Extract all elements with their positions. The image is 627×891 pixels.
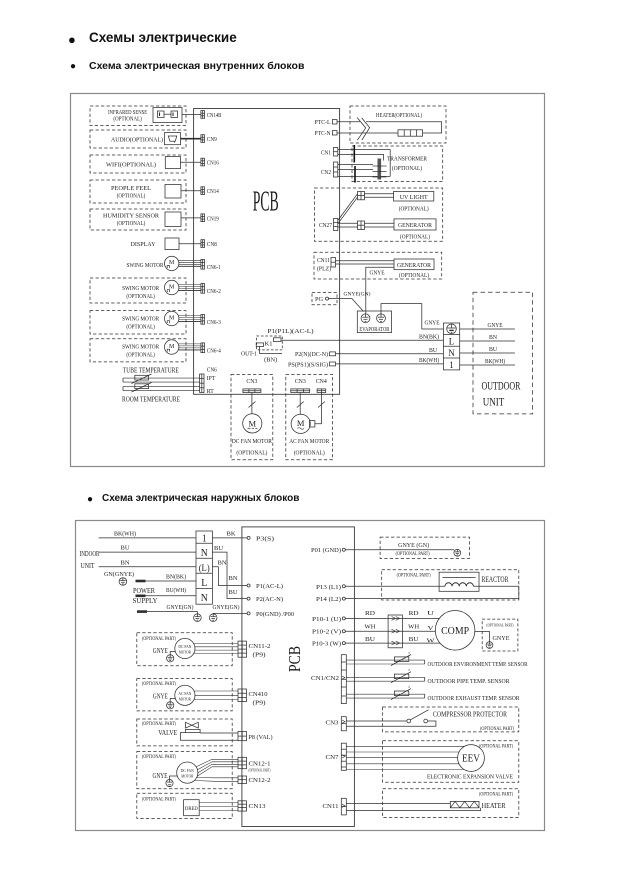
svg-text:ELECTRONIC EXPANSION VALVE: ELECTRONIC EXPANSION VALVE bbox=[427, 773, 513, 780]
capacitor C1 (AC fan) bbox=[310, 421, 315, 427]
svg-text:AC FAN: AC FAN bbox=[178, 691, 192, 696]
svg-text:BU: BU bbox=[229, 589, 238, 596]
pad PTC-N bbox=[332, 131, 337, 135]
svg-text:ROOM TEMPERATURE: ROOM TEMPERATURE bbox=[122, 397, 180, 404]
svg-text:(PLZ): (PLZ) bbox=[317, 266, 331, 273]
header title 2 bbox=[89, 60, 304, 72]
svg-text:P8 (VAL): P8 (VAL) bbox=[249, 734, 273, 741]
earth symbol evaporator 2 bbox=[377, 314, 386, 323]
heater group box (optional) bbox=[350, 106, 446, 143]
svg-text:1: 1 bbox=[449, 361, 454, 371]
connector CN8 bbox=[201, 240, 205, 248]
svg-text:CN8: CN8 bbox=[207, 242, 217, 248]
pin P10-2(V) bbox=[342, 630, 345, 633]
earth symbol power right bbox=[209, 614, 217, 622]
plasma generator group box (optional) bbox=[314, 252, 442, 279]
header title 1 bbox=[89, 30, 237, 45]
svg-text:SUPPLY: SUPPLY bbox=[133, 597, 158, 605]
wires CN27 to UV connector (diagonal pair) bbox=[338, 194, 358, 221]
svg-text:AUDIO(OPTIONAL): AUDIO(OPTIONAL) bbox=[111, 136, 163, 143]
connector CN12-2b bbox=[238, 776, 247, 784]
svg-text:(OPTIONAL PART): (OPTIONAL PART) bbox=[480, 727, 514, 732]
thermistor RT1 wires bbox=[346, 659, 424, 661]
connector CN14 bbox=[201, 187, 205, 195]
svg-text:BU: BU bbox=[409, 636, 419, 643]
wire BK terminal to P3(S) bbox=[212, 537, 247, 539]
AC fan motor box (optional) bbox=[286, 374, 333, 459]
svg-text:BU: BU bbox=[429, 348, 438, 354]
swing motor SM4 bbox=[165, 340, 179, 354]
thermistor IPT (tube temp) bbox=[123, 377, 200, 379]
AC fan motor B bbox=[175, 685, 195, 705]
svg-text:CN27: CN27 bbox=[319, 223, 332, 229]
svg-text:SWING MOTOR: SWING MOTOR bbox=[127, 262, 165, 269]
connector CN3 (AC fan) bbox=[291, 389, 310, 393]
connector CN13 bbox=[238, 801, 247, 811]
svg-text:OUTDOOR: OUTDOOR bbox=[482, 381, 521, 393]
connector CN12-1 bbox=[238, 757, 247, 768]
pin P10-1(U) bbox=[342, 617, 345, 620]
wires terminal to outdoor unit bbox=[460, 328, 515, 330]
svg-text:(OPTIONAL PART): (OPTIONAL PART) bbox=[487, 623, 514, 628]
svg-text:HEATER: HEATER bbox=[482, 801, 506, 810]
wire P13 to reactor bbox=[345, 585, 445, 587]
svg-text:CN11: CN11 bbox=[317, 258, 330, 264]
svg-text:(OPTIONAL): (OPTIONAL) bbox=[126, 351, 155, 358]
wire heater loop bbox=[366, 122, 442, 133]
wire BK(WH) indoor to terminal 1 bbox=[99, 537, 196, 539]
pin P13(L1) bbox=[342, 585, 345, 588]
connector CN6 (temperature) bbox=[200, 374, 204, 393]
pin P0(GND)/P00 bbox=[247, 612, 250, 615]
wires CN11 to heater bbox=[346, 803, 450, 805]
svg-text:L: L bbox=[201, 577, 207, 589]
thermistor RT3 (outdoor exhaust) bbox=[394, 691, 408, 696]
svg-text:CN14B: CN14B bbox=[207, 113, 222, 119]
connector comp plug bbox=[388, 615, 402, 648]
svg-text:(OPTIONAL): (OPTIONAL) bbox=[400, 234, 430, 241]
svg-text:MOTOR: MOTOR bbox=[179, 650, 192, 655]
transformer T1 bbox=[389, 150, 391, 177]
wires CN1 to transformer T1 bbox=[338, 149, 390, 151]
thermistor RT1 (outdoor environment) bbox=[394, 657, 408, 662]
svg-text:HUMIDITY SENSOR: HUMIDITY SENSOR bbox=[103, 213, 160, 220]
svg-text:(OPTIONAL): (OPTIONAL) bbox=[126, 293, 155, 300]
svg-text:GN(GNYE): GN(GNYE) bbox=[104, 571, 134, 578]
svg-text:GNYE(GN): GNYE(GN) bbox=[213, 604, 240, 611]
wire motor C earth bbox=[170, 776, 178, 780]
svg-text:POWER: POWER bbox=[133, 587, 155, 595]
svg-text:RT: RT bbox=[207, 389, 214, 395]
header bullet 1 bbox=[68, 32, 76, 47]
svg-text:(OPTIONAL): (OPTIONAL) bbox=[236, 449, 267, 456]
svg-text:UNIT: UNIT bbox=[483, 397, 505, 409]
svg-text:P1(AC-L): P1(AC-L) bbox=[256, 583, 283, 590]
wires UV mini to UV lamp bbox=[365, 193, 394, 195]
connector CN19 bbox=[201, 214, 205, 222]
svg-text:CN2: CN2 bbox=[321, 170, 331, 176]
svg-text:CN11: CN11 bbox=[323, 803, 339, 810]
connector CN6-2 bbox=[201, 284, 205, 294]
svg-text:BU: BU bbox=[489, 347, 498, 353]
wires CN2 to transformer T1 bbox=[338, 164, 373, 166]
earth symbol motor B bbox=[167, 702, 174, 709]
svg-text:GNYE(GN): GNYE(GN) bbox=[344, 291, 371, 298]
wires motor A to CN11-2 bbox=[194, 643, 238, 645]
display module icon bbox=[165, 238, 179, 250]
header title 3 bbox=[102, 493, 299, 504]
wire V phase bbox=[345, 630, 435, 632]
terminal block XT1 bbox=[443, 323, 459, 370]
svg-text:GENERATOR: GENERATOR bbox=[397, 262, 432, 269]
transformer group box (optional) bbox=[352, 146, 443, 182]
svg-text:MOTOR: MOTOR bbox=[179, 696, 192, 701]
connector CN4 (AC fan cap) bbox=[317, 389, 326, 393]
DRED module bbox=[184, 800, 200, 816]
wire element to PTC-N bbox=[337, 132, 398, 134]
wire PG to evaporator earth bbox=[329, 299, 364, 312]
UV light group box (optional) bbox=[314, 188, 442, 241]
reactor L1 body bbox=[439, 572, 479, 591]
svg-text:P1(P1L)(AC-L): P1(P1L)(AC-L) bbox=[268, 328, 314, 335]
wire bundle SM2 to CN6-2 bbox=[179, 283, 201, 285]
connector generator mini bbox=[358, 221, 365, 230]
connector CN3 (DC fan) bbox=[243, 389, 261, 393]
svg-text:EEV: EEV bbox=[462, 753, 480, 765]
earth symbol comp bbox=[486, 642, 493, 649]
svg-text:(OPTIONAL): (OPTIONAL) bbox=[117, 220, 146, 227]
svg-text:(OPTIONAL PART): (OPTIONAL PART) bbox=[397, 573, 431, 578]
connector CN1 bbox=[334, 148, 338, 157]
svg-text:P0(GND) /P00: P0(GND) /P00 bbox=[256, 611, 294, 618]
svg-text:P10-1 (U): P10-1 (U) bbox=[312, 616, 341, 623]
wire PTC-L to heater element bbox=[337, 121, 360, 123]
svg-text:K1: K1 bbox=[265, 341, 273, 347]
wire CN4 to capacitor bbox=[315, 393, 322, 424]
wire P01 to earth bbox=[345, 549, 454, 551]
svg-text:(OPTIONAL PART): (OPTIONAL PART) bbox=[142, 797, 176, 802]
svg-text:GNYE: GNYE bbox=[370, 271, 385, 277]
wires CN11 to generator G2 bbox=[336, 260, 395, 262]
humidity sensor module icon bbox=[165, 212, 181, 227]
reactor L1 winding bbox=[445, 583, 473, 587]
svg-text:(OPTIONAL PART): (OPTIONAL PART) bbox=[142, 755, 176, 760]
DRED box (optional part) bbox=[137, 793, 232, 818]
wire bundle SM3 to CN6-3 bbox=[179, 314, 201, 316]
svg-text:COMP: COMP bbox=[441, 625, 469, 637]
svg-text:P2(N)(DC-N): P2(N)(DC-N) bbox=[295, 351, 328, 358]
swing motor SM2 box (optional) bbox=[90, 278, 186, 303]
svg-text:SWING MOTOR: SWING MOTOR bbox=[122, 343, 160, 350]
svg-text:(OPTIONAL): (OPTIONAL) bbox=[126, 323, 155, 330]
terminal strip XT2 bbox=[196, 531, 212, 604]
svg-text:CN12-2: CN12-2 bbox=[249, 777, 271, 784]
svg-text:CN1: CN1 bbox=[321, 150, 331, 156]
svg-text:(OPTIONAL): (OPTIONAL) bbox=[392, 165, 422, 172]
evaporator E1 bbox=[357, 311, 391, 333]
svg-text:CN6-4: CN6-4 bbox=[207, 348, 221, 354]
swing motor SM2 bbox=[165, 280, 179, 294]
reactor group box (optional part) bbox=[382, 570, 519, 600]
DC fan motor C box (optional part) bbox=[137, 752, 232, 789]
svg-text:(OPTIONAL PART): (OPTIONAL PART) bbox=[396, 552, 430, 557]
svg-text:CN12-1: CN12-1 bbox=[249, 761, 271, 768]
svg-text:P10-2 (V): P10-2 (V) bbox=[312, 629, 341, 636]
wire BN(BK) power to terminal L bbox=[136, 580, 146, 583]
DC fan motor C bbox=[177, 762, 198, 783]
wire wifi to CN16 bbox=[181, 161, 201, 163]
svg-text:(OPTIONAL PART): (OPTIONAL PART) bbox=[142, 637, 176, 642]
AC fan motor M2 bbox=[291, 414, 310, 433]
svg-text:BK(WH): BK(WH) bbox=[485, 358, 505, 365]
PTC heater element (segmented) bbox=[398, 130, 423, 136]
wire bundle SM4 to CN6-4 bbox=[179, 343, 201, 345]
svg-text:RD: RD bbox=[365, 610, 375, 617]
wires motor C to CN12-1 bbox=[196, 759, 238, 767]
PCB U1 board outline (indoor) bbox=[194, 109, 340, 395]
EEV coil bbox=[458, 745, 485, 772]
svg-text:(OPTIONAL PART): (OPTIONAL PART) bbox=[249, 769, 272, 773]
wire GNYE(GN) power to earth bbox=[137, 610, 147, 613]
infrared receiver icon bbox=[153, 108, 182, 123]
wire OUT-1 bbox=[260, 347, 283, 354]
wire BU terminal N to P2 bbox=[212, 552, 247, 599]
plasma generator module G2 bbox=[394, 259, 434, 270]
svg-text:RD: RD bbox=[409, 610, 419, 617]
svg-text:OUTDOOR PIPE TEMP. SENSOR: OUTDOOR PIPE TEMP. SENSOR bbox=[428, 678, 511, 685]
svg-text:PCB: PCB bbox=[253, 186, 279, 217]
earth symbol terminal bbox=[447, 324, 457, 334]
connector CN11-2 (P9) bbox=[238, 641, 247, 657]
svg-text:BN: BN bbox=[218, 559, 227, 566]
svg-text:MOTOR: MOTOR bbox=[181, 774, 194, 779]
connector CN2 bbox=[334, 162, 338, 177]
wire W phase bbox=[345, 642, 440, 644]
svg-text:N: N bbox=[201, 592, 208, 604]
pad P2 bbox=[330, 352, 336, 356]
svg-text:CN3: CN3 bbox=[246, 379, 257, 385]
wire motor A earth bbox=[170, 652, 175, 655]
earth symbol evaporator 1 bbox=[361, 314, 370, 323]
svg-text:CN4: CN4 bbox=[316, 379, 327, 385]
wire valve to P8 bbox=[200, 732, 238, 734]
svg-text:COMPRESSOR PROTECTOR: COMPRESSOR PROTECTOR bbox=[433, 710, 507, 719]
wire audio to CN9 (thick) bbox=[181, 138, 201, 140]
audio speaker icon bbox=[165, 133, 181, 145]
wifi module box (optional) bbox=[90, 155, 186, 173]
svg-text:(P9): (P9) bbox=[253, 652, 266, 659]
wire CN3 to DC fan motor bbox=[251, 393, 253, 414]
wire CN3 to AC fan motor bbox=[299, 393, 301, 415]
AC fan motor B box (optional part) bbox=[137, 679, 232, 711]
svg-text:(OPTIONAL): (OPTIONAL) bbox=[399, 272, 429, 279]
svg-text:BN: BN bbox=[121, 559, 130, 566]
svg-text:PS(PS1)(S/SIG): PS(PS1)(S/SIG) bbox=[288, 361, 328, 368]
DC fan motor A box (optional part) bbox=[137, 633, 232, 666]
svg-text:BU: BU bbox=[121, 545, 130, 552]
svg-text:WH: WH bbox=[365, 624, 376, 631]
pin P01(GND) bbox=[342, 548, 345, 551]
svg-text:(OPTIONAL PART): (OPTIONAL PART) bbox=[479, 792, 513, 797]
thermistor RT2 wires bbox=[346, 676, 424, 678]
svg-text:(OPTIONAL PART): (OPTIONAL PART) bbox=[142, 722, 176, 727]
svg-text:P01 (GND): P01 (GND) bbox=[311, 547, 341, 554]
svg-text:(OPTIONAL): (OPTIONAL) bbox=[117, 192, 146, 199]
svg-text:t: t bbox=[409, 650, 411, 655]
wire motor B earth bbox=[170, 699, 175, 702]
earth symbol motor A bbox=[167, 655, 174, 662]
svg-text:IPT: IPT bbox=[207, 376, 216, 382]
outdoor unit box bbox=[473, 292, 533, 414]
valve box (optional part) bbox=[137, 719, 232, 746]
people feel sensor box (optional) bbox=[90, 180, 186, 203]
wire comp to earth bbox=[475, 632, 490, 642]
svg-text:W: W bbox=[427, 639, 435, 645]
wire evaporator earth to terminal earth bbox=[381, 304, 443, 329]
connector P8 (VAL) bbox=[238, 732, 247, 741]
header bullet 3 bbox=[87, 494, 93, 505]
svg-text:CN6-2: CN6-2 bbox=[207, 289, 221, 295]
wire BU indoor to terminal N bbox=[99, 551, 196, 553]
svg-text:N: N bbox=[201, 547, 208, 559]
svg-text:GENERATOR: GENERATOR bbox=[398, 222, 433, 229]
svg-text:DISPLAY: DISPLAY bbox=[131, 241, 156, 248]
wire humidity to CN19 bbox=[181, 217, 201, 219]
svg-text:P14 (L2): P14 (L2) bbox=[316, 596, 341, 603]
svg-text:CN6: CN6 bbox=[207, 368, 217, 374]
comp earth group box (optional part) bbox=[482, 619, 518, 651]
thermistor RT3 wires bbox=[346, 693, 424, 695]
svg-text:UNIT: UNIT bbox=[81, 562, 96, 570]
swing motor SM3 box (optional) bbox=[90, 311, 186, 334]
protector switch SW1 bbox=[346, 720, 407, 722]
earth symbol indoor bbox=[119, 578, 127, 586]
pin P3(S) bbox=[247, 536, 250, 539]
svg-text:CN9: CN9 bbox=[207, 137, 217, 143]
svg-text:t: t bbox=[409, 667, 411, 672]
svg-text:BU: BU bbox=[365, 636, 375, 643]
wire BU(WH) power to terminal N bbox=[136, 594, 146, 597]
svg-text:PCB: PCB bbox=[285, 646, 304, 672]
svg-text:OUT-1: OUT-1 bbox=[241, 351, 257, 357]
PG connector box bbox=[312, 293, 337, 305]
thermistor RT2 (outdoor pipe) bbox=[394, 674, 408, 679]
pin P10-3(W) bbox=[342, 642, 345, 645]
svg-text:BN(BK): BN(BK) bbox=[166, 573, 186, 580]
wires motor C to CN12-2 bbox=[197, 777, 239, 779]
svg-text:CN11-2: CN11-2 bbox=[249, 643, 271, 650]
DC fan motor A bbox=[175, 638, 195, 658]
svg-text:HEATER(OPTIONAL): HEATER(OPTIONAL) bbox=[376, 112, 422, 119]
wire bundle SM1 to CN6-1 bbox=[179, 259, 201, 261]
svg-text:(OPTIONAL PART): (OPTIONAL PART) bbox=[142, 682, 176, 687]
svg-text:CN3: CN3 bbox=[326, 720, 339, 727]
svg-text:BU: BU bbox=[214, 545, 223, 552]
DC fan motor box (optional) bbox=[231, 374, 273, 459]
svg-text:GNYE: GNYE bbox=[488, 323, 503, 329]
svg-text:P13 (L1): P13 (L1) bbox=[316, 584, 341, 591]
svg-text:SWING MOTOR: SWING MOTOR bbox=[122, 285, 160, 292]
svg-text:M: M bbox=[249, 418, 257, 428]
svg-text:CN410: CN410 bbox=[249, 691, 268, 698]
svg-text:SWING MOTOR: SWING MOTOR bbox=[122, 315, 160, 322]
svg-text:TRANSFORMER: TRANSFORMER bbox=[387, 155, 428, 162]
wires motor B to CN410 bbox=[194, 690, 238, 692]
connector CN16 bbox=[201, 158, 205, 166]
svg-text:TUBE TEMPERATURE: TUBE TEMPERATURE bbox=[123, 367, 179, 374]
compressor protector group box (optional part) bbox=[383, 707, 519, 732]
wire generator G2 to evaporator earth bbox=[366, 267, 394, 314]
audio module box (optional) bbox=[90, 130, 186, 148]
wifi module icon bbox=[165, 157, 180, 169]
svg-text:GNYE: GNYE bbox=[153, 693, 168, 701]
earth symbol power left bbox=[194, 614, 202, 622]
wire PS to terminal 1 (BK) bbox=[336, 363, 444, 365]
svg-text:PTC-L: PTC-L bbox=[315, 120, 331, 126]
svg-text:BK: BK bbox=[227, 530, 236, 537]
swing motor SM4 box (optional) bbox=[90, 339, 186, 362]
svg-text:CN6-3: CN6-3 bbox=[207, 320, 221, 326]
svg-text:P3(S): P3(S) bbox=[256, 535, 274, 542]
wire BN indoor to terminal (L) bbox=[99, 566, 196, 568]
svg-text:GNYE (GN): GNYE (GN) bbox=[398, 542, 429, 549]
svg-text:CN3: CN3 bbox=[295, 379, 306, 385]
svg-text:BN: BN bbox=[489, 335, 498, 341]
pin P1(AC-L) bbox=[247, 584, 250, 587]
wires CN7 to EEV bbox=[346, 745, 464, 747]
wire P2 to terminal N (BU) bbox=[336, 353, 444, 355]
svg-text:(OPTIONAL): (OPTIONAL) bbox=[113, 115, 142, 122]
svg-text:GNYE: GNYE bbox=[425, 321, 440, 327]
pad PTC-L bbox=[332, 120, 337, 124]
connector CN9 bbox=[201, 135, 205, 143]
earth wire group box (optional part) bbox=[380, 537, 469, 558]
svg-text:U: U bbox=[427, 611, 435, 617]
svg-text:DRED: DRED bbox=[185, 807, 198, 812]
valve V1 symbol bbox=[186, 722, 199, 728]
svg-text:AC FAN MOTOR: AC FAN MOTOR bbox=[289, 438, 330, 445]
svg-text:(OPTIONAL): (OPTIONAL) bbox=[294, 449, 325, 456]
swing motor SM3 bbox=[165, 311, 179, 325]
heater element H1 bbox=[450, 801, 479, 807]
EEV group box (optional part) bbox=[383, 741, 519, 783]
svg-text:OUTDOOR ENVIRONMENT TEMP. SENS: OUTDOOR ENVIRONMENT TEMP. SENSOR bbox=[428, 661, 529, 668]
svg-text:CN6-1: CN6-1 bbox=[207, 265, 221, 271]
svg-text:N: N bbox=[448, 349, 455, 359]
connector CN6-4 bbox=[201, 343, 205, 353]
ion generator module G1 bbox=[394, 219, 436, 230]
pad PS bbox=[330, 362, 336, 366]
svg-text:(BN): (BN) bbox=[264, 356, 277, 363]
humidity sensor box (optional) bbox=[90, 209, 186, 230]
svg-text:V: V bbox=[428, 626, 435, 632]
wire P0 to earth bbox=[213, 612, 247, 615]
svg-text:CN14: CN14 bbox=[207, 189, 219, 195]
wire BN terminal (L) to P1 bbox=[212, 567, 247, 586]
svg-text:BN: BN bbox=[229, 575, 238, 582]
heater chevron symbol bbox=[357, 118, 366, 141]
svg-text:WH: WH bbox=[408, 624, 419, 631]
connector CN14B bbox=[201, 111, 205, 119]
connector CN6-1 bbox=[201, 259, 205, 269]
wire display to CN8 bbox=[179, 243, 201, 245]
svg-text:PG: PG bbox=[315, 297, 324, 303]
frame of outdoor unit schematic bbox=[76, 521, 545, 831]
svg-text:1: 1 bbox=[202, 533, 207, 545]
svg-text:PEOPLE FEEL: PEOPLE FEEL bbox=[111, 185, 151, 192]
svg-text:(P9): (P9) bbox=[253, 700, 266, 707]
svg-text:INDOOR: INDOOR bbox=[80, 550, 100, 558]
